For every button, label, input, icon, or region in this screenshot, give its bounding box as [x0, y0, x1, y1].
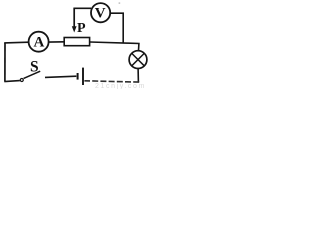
voltmeter V: [91, 3, 110, 22]
rheostat P box: [64, 38, 89, 46]
switch blade: [24, 71, 41, 78]
svg-text:V: V: [95, 5, 106, 21]
svg-text:S: S: [30, 59, 39, 76]
wire: battery to switch: [45, 76, 76, 77]
switch pivot: [20, 79, 23, 82]
wire: top-left horizontal from left rail to ammeter: [4, 41, 28, 44]
svg-text:21cnjy.com: 21cnjy.com: [95, 83, 146, 89]
wire: voltmeter right to corner and down: [110, 13, 123, 43]
speck (scan noise) top right: [119, 2, 121, 3]
wire: ammeter to rheostat box: [49, 41, 65, 43]
wire: switch to left rail: [4, 81, 20, 82]
wire: rheostat right to lamp corner and down: [90, 42, 139, 51]
wire: arrow post to voltmeter left (corner): [73, 7, 91, 9]
battery long plate: [82, 68, 84, 85]
wire: lamp bottom down to corner: [137, 69, 139, 83]
wire: left rail vertical: [4, 43, 6, 82]
lamp: [129, 51, 147, 69]
svg-text:P: P: [77, 21, 86, 36]
rheostat slider arrow: [73, 9, 75, 28]
battery short plate: [77, 73, 79, 80]
ammeter A: [29, 32, 49, 52]
wire: dashed bottom from lamp corner to battery: [84, 81, 139, 82]
svg-text:A: A: [33, 35, 44, 51]
